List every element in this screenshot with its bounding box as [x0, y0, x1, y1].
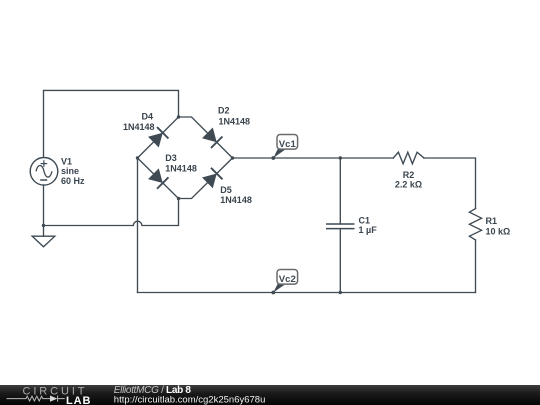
svg-text:V1: V1	[61, 156, 72, 166]
svg-text:D2: D2	[218, 106, 230, 116]
svg-text:1N4148: 1N4148	[220, 195, 252, 205]
svg-text:1 µF: 1 µF	[359, 225, 378, 235]
svg-text:http://circuitlab.com/cg2k25n6: http://circuitlab.com/cg2k25n6y678u	[114, 394, 266, 405]
svg-text:1N4148: 1N4148	[165, 164, 197, 174]
svg-text:10 kΩ: 10 kΩ	[486, 227, 511, 237]
svg-text:1N4148: 1N4148	[219, 116, 251, 126]
svg-text:sine: sine	[61, 166, 79, 176]
svg-text:R2: R2	[403, 170, 415, 180]
svg-text:D5: D5	[220, 185, 232, 195]
svg-text:2.2 kΩ: 2.2 kΩ	[395, 179, 422, 189]
svg-text:R1: R1	[486, 216, 498, 226]
svg-text:Vc1: Vc1	[279, 139, 297, 150]
svg-text:Vc2: Vc2	[279, 274, 296, 285]
svg-text:D3: D3	[165, 153, 177, 163]
svg-text:60 Hz: 60 Hz	[61, 176, 85, 186]
svg-text:C1: C1	[359, 216, 371, 226]
svg-text:1N4148: 1N4148	[123, 122, 155, 132]
svg-text:D4: D4	[141, 112, 153, 122]
svg-text:LAB: LAB	[66, 395, 91, 405]
